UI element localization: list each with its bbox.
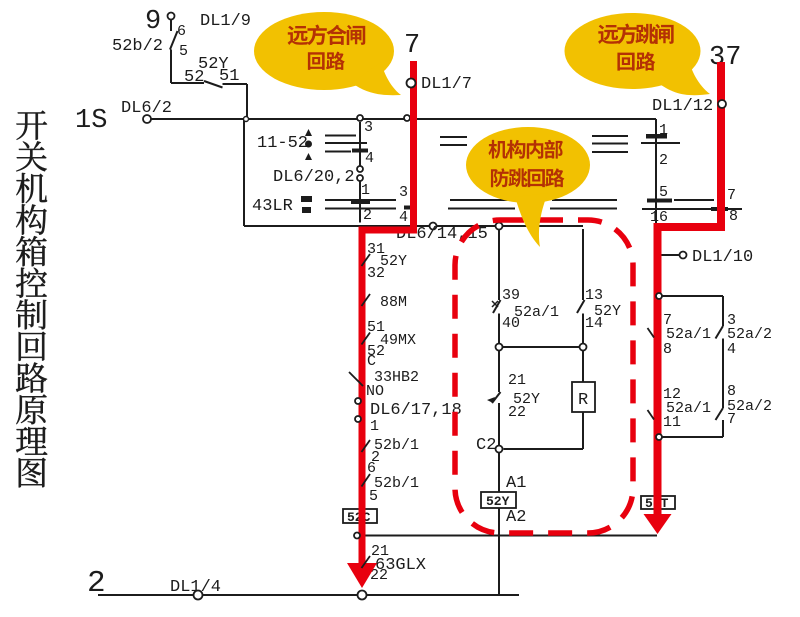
svg-text:39: 39 bbox=[502, 287, 520, 304]
svg-text:52b/1: 52b/1 bbox=[374, 437, 419, 454]
svg-text:DL1/10: DL1/10 bbox=[692, 248, 753, 267]
svg-text:7: 7 bbox=[727, 187, 736, 204]
svg-text:DL6/20,2: DL6/20,2 bbox=[273, 168, 355, 187]
svg-text:2: 2 bbox=[363, 207, 372, 224]
svg-text:A1: A1 bbox=[506, 474, 526, 493]
svg-text:C2: C2 bbox=[476, 436, 496, 455]
svg-text:43LR: 43LR bbox=[252, 197, 293, 216]
svg-text:DL1/12: DL1/12 bbox=[652, 97, 713, 116]
svg-text:8: 8 bbox=[663, 341, 672, 358]
svg-text:52b/2: 52b/2 bbox=[112, 37, 163, 56]
svg-text:6: 6 bbox=[177, 23, 186, 40]
svg-text:11-52: 11-52 bbox=[257, 134, 308, 153]
svg-text:32: 32 bbox=[367, 265, 385, 282]
svg-text:2: 2 bbox=[659, 152, 668, 169]
svg-text:9: 9 bbox=[145, 7, 161, 37]
svg-text:4: 4 bbox=[399, 209, 408, 226]
svg-text:4: 4 bbox=[365, 150, 374, 167]
svg-text:37: 37 bbox=[709, 43, 741, 73]
svg-text:3: 3 bbox=[399, 184, 408, 201]
svg-text:52Y: 52Y bbox=[486, 494, 510, 509]
svg-text:DL1/4: DL1/4 bbox=[170, 578, 221, 597]
svg-text:52b/1: 52b/1 bbox=[374, 475, 419, 492]
svg-text:DL1/9: DL1/9 bbox=[200, 12, 251, 31]
svg-text:A2: A2 bbox=[506, 508, 526, 527]
svg-text:1: 1 bbox=[659, 122, 668, 139]
svg-text:DL6/17,18: DL6/17,18 bbox=[370, 401, 462, 420]
svg-text:C: C bbox=[367, 353, 376, 370]
svg-text:5: 5 bbox=[369, 488, 378, 505]
svg-text:1: 1 bbox=[370, 418, 379, 435]
svg-text:21: 21 bbox=[508, 372, 526, 389]
svg-text:40: 40 bbox=[502, 315, 520, 332]
svg-text:51: 51 bbox=[219, 67, 239, 86]
svg-text:5: 5 bbox=[179, 43, 188, 60]
svg-text:7: 7 bbox=[727, 411, 736, 428]
svg-text:NO: NO bbox=[366, 383, 384, 400]
svg-text:88M: 88M bbox=[380, 294, 407, 311]
svg-text:22: 22 bbox=[508, 404, 526, 421]
svg-text:7: 7 bbox=[404, 31, 420, 61]
svg-text:1S: 1S bbox=[75, 106, 107, 136]
svg-text:13: 13 bbox=[585, 287, 603, 304]
svg-text:2: 2 bbox=[87, 566, 106, 601]
svg-text:R: R bbox=[578, 391, 588, 410]
svg-text:52a/1: 52a/1 bbox=[666, 326, 711, 343]
svg-text:1: 1 bbox=[361, 182, 370, 199]
svg-text:14: 14 bbox=[585, 315, 603, 332]
svg-text:DL1/7: DL1/7 bbox=[421, 75, 472, 94]
svg-text:21: 21 bbox=[371, 543, 389, 560]
svg-text:3: 3 bbox=[364, 119, 373, 136]
svg-text:11: 11 bbox=[663, 414, 681, 431]
svg-text:49MX: 49MX bbox=[380, 332, 416, 349]
svg-text:52: 52 bbox=[184, 68, 204, 87]
svg-text:52a/1: 52a/1 bbox=[514, 304, 559, 321]
svg-text:8: 8 bbox=[729, 208, 738, 225]
svg-text:5: 5 bbox=[659, 184, 668, 201]
svg-text:DL6/2: DL6/2 bbox=[121, 99, 172, 118]
svg-text:4: 4 bbox=[727, 341, 736, 358]
